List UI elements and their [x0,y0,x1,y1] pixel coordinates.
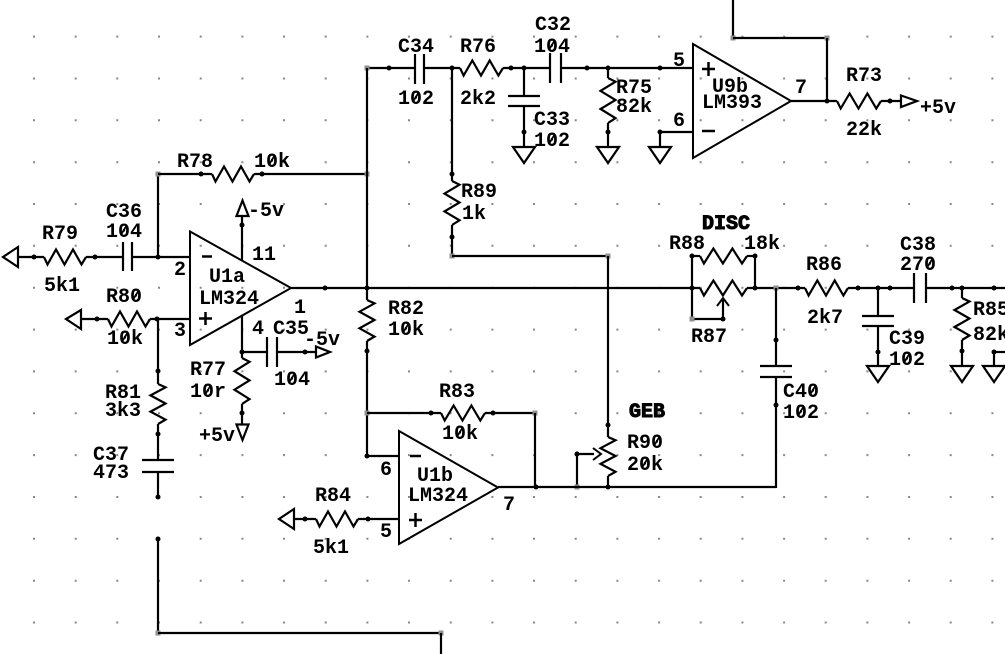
junction R78 left end [199,172,204,177]
svg-text:-5v: -5v [248,200,284,223]
junction R82 bottom [365,349,370,354]
svg-text:5k1: 5k1 [313,537,349,560]
wire bus R87 to R86 [747,287,805,289]
pin number 6 of U9b [673,110,685,133]
corner feedback right [825,36,830,41]
junction R89 bottom [450,235,455,240]
label R87 [691,326,727,349]
wire C39 branch down [877,288,879,316]
svg-text:2k2: 2k2 [460,88,496,111]
wire R85 top stub [961,288,963,298]
svg-text:R87: R87 [691,326,727,349]
corner bottom-left [156,631,161,636]
wire bottom horizontal [158,632,441,634]
wire U1b pin 6 [367,455,399,457]
svg-text:C32: C32 [535,14,571,37]
label R86 value 2k7 [807,307,843,330]
resistor R76 [460,61,503,76]
svg-text:-5v: -5v [304,329,340,352]
junction R90 bottom on U1b output [606,485,611,490]
capacitor C33 [508,96,540,106]
junction C37 bottom end [156,495,161,500]
wire pin6 ground stub [659,132,661,147]
resistor R82 [360,300,375,341]
power arrow +5v (right) [901,96,917,108]
wire R84 to U1b pin 5 [358,518,399,520]
wire R88 right vertical [754,255,756,289]
junction U9b output/feedback [825,99,830,104]
tee R78 to feedback vertical [365,172,370,177]
junction R73 right [888,99,893,104]
junction bottom-left top end [156,537,161,542]
pin number 7 of U1b [503,494,515,517]
svg-text:10k: 10k [254,151,290,174]
junction R84 right [366,517,371,522]
svg-text:LM324: LM324 [199,288,259,311]
wire R88 left stub [692,255,700,257]
wire U1a output bus [291,287,700,289]
wire C37 bottom stub [157,472,159,499]
label R90 value 20k [627,454,663,477]
label R78 [177,151,213,174]
label R76 [460,36,496,59]
svg-text:+5v: +5v [920,97,956,120]
wire bottom-left vertical [157,539,159,633]
svg-text:5: 5 [380,521,392,544]
ground below R85 [951,366,973,382]
capacitor C38 [914,273,926,303]
junction R80 left [95,317,100,322]
svg-text:82k: 82k [973,324,1005,347]
junction above R75 ground [606,130,611,135]
corner R89 elbow [450,254,455,259]
node junction bus left of R87 [690,286,695,291]
wire U1b output [498,486,776,488]
label +5v net [920,97,956,120]
label LM324 (U1a) [199,288,259,311]
label R85 value 82k [973,324,1005,347]
junction above C33 ground [522,130,527,135]
junction R85 branch [960,286,965,291]
junction U1b pin6 [365,454,370,459]
junction U9b pin5 stub [658,66,663,71]
wire R75 to ground [607,123,609,147]
resistor R81 [151,384,166,424]
svg-text:6: 6 [673,110,685,133]
label C37 value 473 [93,462,129,485]
junction right edge stub [992,350,997,355]
input arrow left (R80) [66,310,81,329]
capacitor C36 [123,242,132,271]
corner feedback left [731,36,736,41]
svg-text:DISC: DISC [702,213,750,236]
label -5v at pin 11 [248,200,284,223]
svg-text:102: 102 [889,349,925,372]
wire U9b feedback vertical to top edge [732,0,734,38]
junction R88 right [753,254,758,259]
wire C35 to -5v arrow [277,351,315,353]
wire R83 right segment [485,412,535,414]
wire R76 to C32 [503,67,550,69]
svg-text:10k: 10k [107,328,143,351]
wire C36 to U1a pin 2 [132,256,190,258]
label R82 [388,298,424,321]
label R73 value 22k [846,119,882,142]
svg-text:C33: C33 [534,109,570,132]
op-amp U9b body [693,44,791,158]
svg-text:LM324: LM324 [408,485,468,508]
junction C32 right [585,66,590,71]
U1a minus input symbol [202,255,212,258]
junction C38 left [888,286,893,291]
junction C40 top [774,338,779,343]
svg-text:R83: R83 [439,381,475,404]
junction above R85 ground [960,349,965,354]
junction on output bus [323,286,328,291]
svg-text:R73: R73 [846,65,882,88]
label C36 value 104 [106,221,142,244]
pin number 11 of U1a [252,244,276,267]
resistor R89 [445,181,460,225]
svg-text:104: 104 [534,36,570,59]
svg-text:C40: C40 [783,381,819,404]
label -5v at C35 [304,329,340,352]
label C34 value 102 [398,88,434,111]
svg-text:1: 1 [294,297,306,320]
U9b minus input symbol [702,130,715,133]
label R83 value 10k [442,423,478,446]
label LM324 (U1b) [408,485,468,508]
wire U1a pin 4 stub [241,316,243,352]
node junction pin2/R78 [156,255,161,260]
U1a plus input symbol [199,312,212,325]
label R80 [106,286,142,309]
label R88 value 18k [744,233,780,256]
capacitor C34 [415,54,424,84]
svg-text:4: 4 [252,318,264,341]
wire R89 to R90 horizontal [452,255,608,257]
wire feedback vertical upper (C34 to bus) [366,68,368,300]
svg-text:R78: R78 [177,151,213,174]
wire stub from right edge [994,351,1005,353]
wire U9b pin 6 [660,131,693,133]
junction R81 bottom [156,432,161,437]
node junction C34/R89 [450,66,455,71]
label C35 [273,318,309,341]
svg-text:7: 7 [503,494,515,517]
resistor R83 [441,406,485,421]
ground at right edge [983,366,1005,382]
wire R89 bottom [451,225,453,256]
pin number 3 of U1a [174,320,186,343]
label LM393 [702,92,762,115]
junction C35 right [303,350,308,355]
corner R90 elbow [606,254,611,259]
capacitor C37 [142,460,174,472]
label R90 [627,432,663,455]
capacitor C32 [550,53,561,83]
junction R86 left [796,286,801,291]
label C37 [93,444,129,467]
wire C33 to ground [523,106,525,147]
wire R89 branch from top wire [451,68,453,181]
junction U9b pin6 stub [658,130,663,135]
label C38 value 270 [900,254,936,277]
wire C39 to ground [877,326,879,366]
junction C38 right [950,286,955,291]
wire C40 to U1b output [775,377,777,488]
svg-text:5: 5 [673,50,685,73]
label R77 [190,359,226,382]
wire R73 to +5v arrow [881,100,901,102]
wire R87 wiper horizontal [692,318,723,320]
label R89 [461,181,497,204]
label R77 value 10r [190,381,226,404]
wire R78 left segment [158,173,212,175]
label R81 value 3k3 [105,400,141,423]
label R86 [806,254,842,277]
wire R85 to ground [961,340,963,366]
wire R82 to U1b pin 6 [366,341,368,456]
pin number 6 of U1b [380,459,392,482]
pin number 5 of U9b [673,50,685,73]
resistor R75 [601,78,616,123]
junction C33 branch [522,66,527,71]
svg-text:2k7: 2k7 [807,307,843,330]
wire arrow to R79 [17,256,44,258]
R87 wiper arrow [717,298,729,319]
svg-text:104: 104 [274,369,310,392]
op-amp U1a body [190,232,291,346]
resistor R77 [235,358,250,404]
wire R86 to C38 [848,287,914,289]
junction R76 right [509,66,514,71]
junction R77 bottom [240,411,245,416]
junction R90 top [606,423,611,428]
resistor R77 top stub [241,352,243,358]
svg-text:7: 7 [795,77,807,100]
wire right stub to ground [993,352,995,366]
junction R79 left [32,255,37,260]
svg-text:C34: C34 [398,36,434,59]
corner R83 right [533,411,538,416]
U1b minus input symbol [410,455,421,458]
resistor R84 [316,512,358,527]
junction C39 branch [876,286,881,291]
op-amp U1b body [399,431,498,544]
junction far right on bus [992,286,997,291]
svg-text:R86: R86 [806,254,842,277]
label R88 [669,233,705,256]
label R84 value 5k1 [313,537,349,560]
resistor R73 [837,94,881,109]
label C32 [535,14,571,37]
junction R83 left end [429,411,434,416]
svg-text:+5v: +5v [199,425,235,448]
junction R81 top [156,369,161,374]
svg-text:6: 6 [380,459,392,482]
label R83 [439,381,475,404]
junction R83 right end [491,411,496,416]
junction R79 right [93,255,98,260]
svg-text:R80: R80 [106,286,142,309]
junction above C39 ground [876,350,881,355]
svg-text:R82: R82 [388,298,424,321]
capacitor C35 [267,337,277,367]
svg-text:18k: 18k [744,233,780,256]
svg-text:102: 102 [534,130,570,153]
svg-text:C39: C39 [889,328,925,351]
label R78 value 10k [254,151,290,174]
svg-text:2: 2 [174,259,186,282]
label U9b [712,76,748,99]
label C38 [900,234,936,257]
capacitor C39 [862,316,894,326]
svg-text:R89: R89 [461,181,497,204]
junction R78 right end [260,172,265,177]
junction C40 bottom [774,403,779,408]
wire pin4 to C35 [242,351,267,353]
junction R88 left [690,254,695,259]
U9b plus input symbol [702,62,715,76]
resistor R87 (trimmer in bus) [700,281,747,296]
svg-text:R77: R77 [190,359,226,382]
U1b plus input symbol [409,513,422,527]
label R75 [616,77,652,100]
resistor R79 [44,250,86,265]
label R85 [973,299,1005,322]
pin number 2 of U1a [174,259,186,282]
pin number 5 of U1b [380,521,392,544]
resistor R90 (trimmer) [601,437,616,476]
svg-text:R90: R90 [627,432,663,455]
junction on top wire [387,66,392,71]
svg-text:104: 104 [106,221,142,244]
node junction pin4/C35/R77 [240,350,245,355]
wire R90 wiper down [576,454,578,487]
label C34 [398,36,434,59]
corner R87 wiper elbow [690,317,695,322]
wire U1a pin 11 stub [241,216,243,261]
power arrow +5v (down) at R77 [237,425,249,441]
wire U9b output [791,100,837,102]
resistor R88 [700,249,747,264]
wire C32 to U9b pin 5 [561,67,693,69]
wire C33 branch down [523,68,525,96]
label R79 value 5k1 [44,275,80,298]
svg-text:LM393: LM393 [702,92,762,115]
wire pin3 down to R81 [157,319,159,384]
junction R84 left [303,517,308,522]
ground below R75 [597,147,619,163]
node junction bus right of R87 [753,286,758,291]
resistor R78 [212,167,254,182]
svg-text:U1a: U1a [209,266,245,289]
svg-text:3k3: 3k3 [105,400,141,423]
node junction bus/feedback vertical [365,286,370,291]
label R82 value 10k [388,319,424,342]
power arrow -5v (up) at pin 11 [237,201,249,217]
wire top net segment (corner to C34 left plate) [367,67,415,69]
wire R79 to C36 [86,256,123,258]
label R76 value 2k2 [460,88,496,111]
svg-text:R84: R84 [315,485,351,508]
wire R90 bottom [607,476,609,487]
label +5v at R77 [199,425,235,448]
svg-text:R88: R88 [669,233,705,256]
junction pin11 stub [240,223,245,228]
label U1b [417,465,453,488]
wire C38 to right edge [926,287,1005,289]
label U1a [209,266,245,289]
label R75 value 82k [616,96,652,119]
capacitor C40 [760,366,792,377]
label C33 value 102 [534,130,570,153]
junction R75 branch [606,66,611,71]
wire R78 right segment [254,173,367,175]
ground below C33 [513,147,535,163]
svg-text:10k: 10k [388,319,424,342]
tee R83 left [365,411,370,416]
wire R83 down to output [534,413,536,487]
wire C34 to R76 [424,67,460,69]
corner R78 left [156,172,161,177]
corner bottom elbow [439,631,444,636]
corner R90 wiper on output [575,485,580,490]
input arrow left (R79) [3,247,18,267]
wire R77 to +5v arrow [241,404,243,425]
svg-text:473: 473 [93,462,129,485]
wire U9b feedback down to output [826,38,828,101]
input arrow left (R84) [279,509,294,529]
svg-text:R79: R79 [42,223,78,246]
svg-text:22k: 22k [846,119,882,142]
wire R90 branch vertical [607,256,609,437]
wire R78 branch vertical [157,174,159,257]
wire bottom exit down [440,633,442,654]
svg-text:10k: 10k [442,423,478,446]
wire R88 left vertical [691,255,693,319]
junction R83 branch on output [534,485,539,490]
wire arrow to R80 [80,318,108,320]
label C32 value 104 [534,36,570,59]
power arrow -5v (right) at C35 [316,347,330,358]
svg-text:5k1: 5k1 [44,275,80,298]
junction R89 top [450,172,455,177]
wire C40 branch down [775,288,777,366]
svg-text:3: 3 [174,320,186,343]
wire R83 left segment [367,412,441,414]
ground below U9b pin 6 [649,147,671,163]
label R81 [105,382,141,405]
label C33 [534,109,570,132]
svg-text:102: 102 [398,88,434,111]
svg-text:1k: 1k [462,203,486,226]
label R73 [846,65,882,88]
wire R80 to U1a pin 3 [150,318,190,320]
junction R86 right [856,286,861,291]
wire arrow to R84 [293,518,316,520]
resistor R86 [805,281,848,296]
corner C40 branch [774,286,779,291]
label C39 [889,328,925,351]
label C35 value 104 [274,369,310,392]
label C36 [106,201,142,224]
svg-text:20k: 20k [627,454,663,477]
label C40 value 102 [783,402,819,425]
pin number 4 of U1a [252,318,264,341]
label R89 value 1k [462,203,486,226]
